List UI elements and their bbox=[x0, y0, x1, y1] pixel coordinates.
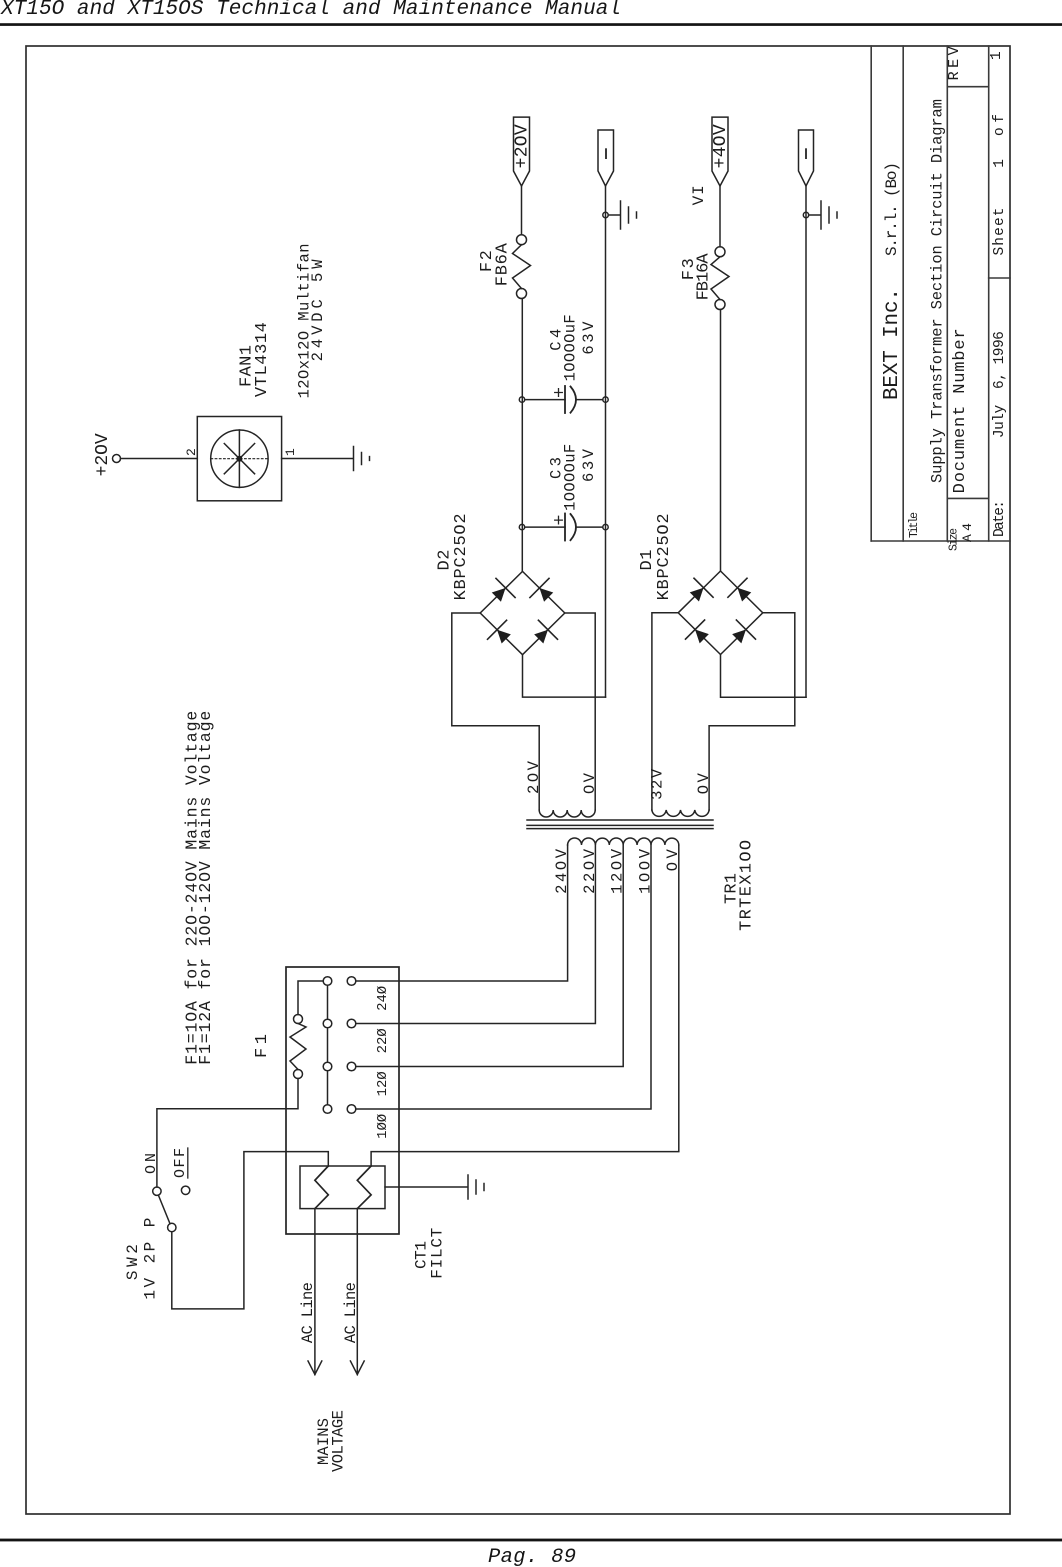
svg-text:+2OV: +2OV bbox=[513, 124, 533, 168]
fuse F3 bbox=[715, 300, 725, 310]
svg-text:Supply Transformer Section Cir: Supply Transformer Section Circuit Diagr… bbox=[929, 99, 947, 483]
title block: Title row bbox=[908, 99, 947, 538]
wire 120V tap to F1 bbox=[356, 845, 623, 1067]
transformer TR1 core bbox=[527, 828, 713, 830]
wire 0V rail (upper) bbox=[605, 186, 607, 697]
switch SW2 contacts bbox=[153, 1187, 161, 1195]
wire AC line 1 bbox=[314, 1209, 316, 1375]
junction ground tap bbox=[603, 212, 608, 217]
wire D1 minus to lower 0V rail bbox=[721, 655, 807, 698]
svg-text:22Ø: 22Ø bbox=[375, 1028, 391, 1053]
svg-text:24Ø: 24Ø bbox=[375, 986, 391, 1011]
label C4 10000uF 63V bbox=[548, 314, 599, 381]
svg-text:KBPC25O2: KBPC25O2 bbox=[655, 513, 674, 600]
capacitor C3 bbox=[525, 514, 603, 541]
svg-text:63V: 63V bbox=[580, 448, 598, 482]
svg-text:1: 1 bbox=[283, 448, 298, 456]
junction C4 bottom bbox=[603, 397, 608, 402]
title block: size / document number / rev bbox=[946, 46, 975, 551]
title block: company name bbox=[881, 162, 904, 400]
footer rule bbox=[0, 1539, 1062, 1542]
terminal flag +40V bbox=[712, 117, 728, 186]
transformer TR1 secondary winding 1 (20V/0V) bbox=[539, 810, 595, 817]
transformer TR1 secondary winding 2 (32V/0V) bbox=[652, 810, 709, 816]
svg-text:AC Line: AC Line bbox=[342, 1282, 360, 1343]
label CT1 / FILCT bbox=[413, 1228, 447, 1279]
terminal flag minus (20V return) bbox=[598, 130, 614, 186]
wire 0V rail (lower) bbox=[805, 186, 807, 697]
svg-text:OV: OV bbox=[695, 773, 713, 795]
svg-text:+4OV: +4OV bbox=[711, 124, 731, 168]
terminal flag minus (40V return) bbox=[799, 130, 814, 186]
fuse holder block F1 outline bbox=[286, 967, 399, 1234]
wire fuse to selector bbox=[298, 981, 323, 1015]
selector contacts (top row) bbox=[323, 977, 332, 1114]
svg-text:BEXT Inc.: BEXT Inc. bbox=[881, 288, 904, 400]
svg-text:1OOOOuF: 1OOOOuF bbox=[562, 444, 580, 511]
ground (fan) bbox=[353, 447, 355, 471]
wire 220V tap to F1 bbox=[356, 845, 596, 1024]
label F3 / FB16A bbox=[680, 253, 714, 301]
svg-text:63V: 63V bbox=[580, 321, 598, 355]
wire flag to fuse F2 bbox=[521, 186, 523, 235]
arrowhead AC line 2 bbox=[350, 1361, 364, 1375]
svg-text:A4: A4 bbox=[960, 523, 975, 542]
terminal flag +20V bbox=[514, 117, 530, 186]
svg-text:F1: F1 bbox=[253, 1034, 272, 1058]
wire SW2 pole to filter CT1 bbox=[172, 1152, 328, 1309]
wire +40V rail: bridge D1 to fuse F3 bbox=[720, 310, 722, 572]
svg-text:VOLTAGE: VOLTAGE bbox=[330, 1410, 348, 1472]
fuse F2 bbox=[517, 289, 527, 299]
svg-text:32V: 32V bbox=[649, 768, 667, 800]
svg-text:FB6A: FB6A bbox=[494, 242, 513, 286]
wire 240V tap to F1 bbox=[356, 845, 568, 981]
svg-text:VTL4314: VTL4314 bbox=[253, 322, 272, 397]
svg-text:OV: OV bbox=[581, 772, 599, 794]
svg-text:1OOOOuF: 1OOOOuF bbox=[562, 314, 580, 381]
wire AC line 2 bbox=[356, 1209, 358, 1375]
bridge rectifier D2 bbox=[480, 571, 565, 654]
junction C3 top bbox=[519, 524, 524, 529]
selector bar bbox=[327, 981, 329, 1109]
title block outline bbox=[871, 46, 1010, 541]
svg-text:1: 1 bbox=[992, 159, 1008, 168]
svg-text:F1=12A for 1OO-12OV Mains Volt: F1=12A for 1OO-12OV Mains Voltage bbox=[196, 711, 215, 1065]
svg-text:of: of bbox=[992, 114, 1008, 136]
svg-text:TRTEX1OO: TRTEX1OO bbox=[738, 840, 757, 931]
svg-text:1ØØ: 1ØØ bbox=[375, 1114, 391, 1139]
svg-text:KBPC25O2: KBPC25O2 bbox=[452, 513, 471, 600]
svg-text:Size: Size bbox=[948, 528, 961, 551]
svg-text:Sheet: Sheet bbox=[992, 208, 1008, 256]
fan FAN1 body bbox=[197, 417, 281, 501]
label TR1 / TRTEX100 bbox=[723, 840, 757, 931]
wire terminal to fan pin 2 bbox=[121, 458, 198, 460]
wire fuse F1 to switch ON contact bbox=[157, 1079, 298, 1188]
svg-text:FB16A: FB16A bbox=[695, 253, 714, 301]
wire D2 AC2 to TR1 0V lead bbox=[565, 613, 595, 810]
ground (upper rail) bbox=[608, 214, 620, 216]
svg-text:Document Number: Document Number bbox=[951, 328, 970, 493]
ground (lower rail) bbox=[809, 214, 821, 216]
wire 100V tap to F1 bbox=[356, 845, 651, 1109]
bridge rectifier D1 bbox=[678, 571, 763, 655]
junction ground tap (lower) bbox=[803, 212, 808, 217]
svg-text:Date:: Date: bbox=[992, 500, 1008, 537]
svg-text:Pag. 89: Pag. 89 bbox=[488, 1546, 576, 1567]
svg-text:OFF: OFF bbox=[172, 1148, 189, 1178]
label FAN1 / VTL4314 bbox=[238, 243, 328, 398]
svg-text:2OV: 2OV bbox=[525, 760, 543, 794]
svg-text:1V 2P P: 1V 2P P bbox=[141, 1218, 159, 1300]
header rule bbox=[0, 23, 1062, 26]
label F2 / FB6A bbox=[478, 242, 513, 286]
svg-text:Title: Title bbox=[908, 512, 921, 538]
transformer TR1 primary winding bbox=[568, 838, 679, 845]
note: fuse rating text bbox=[182, 711, 215, 1065]
label SW2 / 1V 2P P bbox=[124, 1218, 159, 1300]
label D1 KBPC2502 bbox=[638, 513, 674, 600]
wire D2 minus to 0V rail bbox=[523, 655, 606, 697]
junction C3 bottom bbox=[603, 524, 608, 529]
capacitor C4 bbox=[525, 386, 603, 413]
svg-text:July 6, 1996: July 6, 1996 bbox=[992, 331, 1008, 438]
svg-text:+2OV: +2OV bbox=[93, 433, 113, 476]
wire D2 AC1 to TR1 20V lead bbox=[452, 613, 539, 810]
wire F3 to +40V flag bbox=[719, 186, 721, 247]
wire D1 AC2 to TR1 0V lead bbox=[709, 613, 795, 810]
label MAINS VOLTAGE bbox=[315, 1410, 348, 1472]
svg-text:REV: REV bbox=[946, 46, 963, 80]
junction C4 top bbox=[519, 397, 524, 402]
switch SW2 lever bbox=[158, 1195, 170, 1224]
filter element 1 bbox=[315, 1166, 328, 1209]
svg-text:SW2: SW2 bbox=[124, 1244, 142, 1280]
svg-text:FILCT: FILCT bbox=[429, 1228, 447, 1279]
svg-text:AC Line: AC Line bbox=[299, 1282, 317, 1343]
tap terminals (bottom row) bbox=[347, 1105, 356, 1114]
title block: date / sheet row bbox=[989, 51, 1008, 537]
svg-text:S.r.l. (Bo): S.r.l. (Bo) bbox=[883, 162, 901, 256]
wire +20V rail: bridge D2 to fuse F2 bbox=[521, 299, 523, 572]
label C3 10000uF 63V bbox=[548, 444, 599, 511]
arrowhead AC line 1 bbox=[308, 1361, 322, 1375]
wire fan pin 1 to ground bbox=[282, 458, 353, 460]
filter element 2 bbox=[357, 1166, 371, 1209]
ground (CT1) bbox=[467, 1175, 469, 1199]
fuse F1 element bbox=[294, 1070, 303, 1079]
svg-text:XT15O and XT15OS Technical and: XT15O and XT15OS Technical and Maintenan… bbox=[0, 0, 621, 21]
svg-text:VI: VI bbox=[690, 185, 708, 205]
svg-text:12Ø: 12Ø bbox=[375, 1071, 391, 1096]
svg-text:1: 1 bbox=[989, 51, 1005, 60]
wire 0V tap to filter CT1 bbox=[371, 845, 679, 1166]
filter CT1 box bbox=[300, 1166, 385, 1209]
wire CT1 to ground bbox=[385, 1186, 467, 1188]
wire D1 AC1 to TR1 32V lead bbox=[652, 613, 678, 810]
label D2 KBPC2502 bbox=[436, 513, 472, 600]
